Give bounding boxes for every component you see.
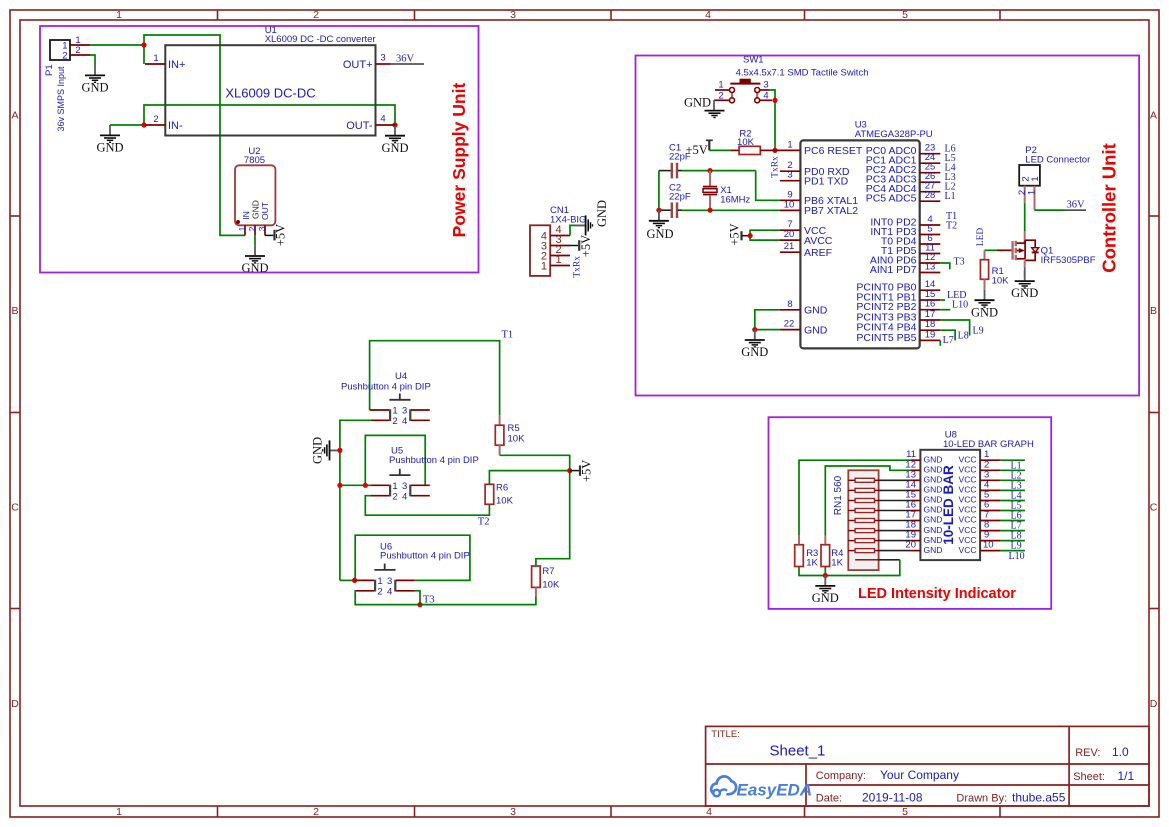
ground GND C2 [646, 210, 673, 241]
pin1 dot marker [236, 220, 240, 224]
wire LED net pin15 [940, 299, 945, 301]
wire U8.11 to R3 [799, 460, 910, 536]
power flag +5V R2 [686, 140, 713, 157]
node junction R2-pin1 [772, 148, 777, 153]
wire L10 net pin16 [940, 309, 950, 311]
svg-text:GND: GND [924, 515, 943, 525]
svg-text:2: 2 [75, 45, 80, 56]
ground GND IN- [96, 125, 123, 155]
svg-text:PCINT5 PB5: PCINT5 PB5 [856, 332, 916, 344]
svg-text:GND: GND [1011, 286, 1038, 300]
LED bar U8 10-LED BAR GRAPH [905, 430, 1034, 561]
wire C1 left down to C2 [658, 171, 660, 211]
right stubs [980, 460, 1000, 550]
svg-text:2: 2 [62, 51, 67, 62]
ground GND U3 [741, 330, 768, 360]
wire CN1.4 to GND [570, 225, 579, 235]
wire +5V junction down to R7 [536, 471, 570, 566]
gate bar [1011, 241, 1013, 260]
node junction C2-GND [656, 208, 661, 213]
svg-text:4: 4 [387, 587, 392, 598]
svg-text:D: D [1150, 698, 1158, 710]
svg-text:EasyEDA: EasyEDA [737, 781, 813, 800]
node junction OUT- [392, 122, 397, 127]
node junction +5V pushbuttons [567, 468, 572, 473]
wire +5V to R2 [709, 149, 730, 151]
node junction R4-GND [823, 573, 828, 578]
wire L9 net pin17 [940, 320, 969, 336]
svg-text:GND: GND [250, 200, 260, 219]
svg-text:B: B [1150, 305, 1157, 317]
svg-text:L10: L10 [952, 300, 968, 311]
svg-text:IN+: IN+ [168, 59, 185, 71]
svg-text:T3: T3 [954, 257, 965, 268]
wire T3 net pin12 [940, 263, 950, 269]
pin 4 OUT- [376, 124, 396, 126]
switch SW1 [714, 55, 868, 103]
svg-text:OUT+: OUT+ [343, 59, 373, 71]
svg-text:4: 4 [763, 90, 768, 101]
ground GND LED section [812, 576, 839, 606]
LED Intensity Indicator box [769, 417, 1052, 609]
svg-text:1: 1 [1027, 190, 1038, 195]
ground GND rail flag (left-pointing) [311, 437, 340, 464]
capacitor C2 22pF [659, 183, 691, 219]
svg-text:Pushbutton 4 pin DIP: Pushbutton 4 pin DIP [389, 455, 479, 466]
node junction IN- [141, 122, 146, 127]
node junction GND8-22 [752, 327, 757, 332]
resistor R3 1K [795, 536, 819, 569]
ground GND Q1 [1011, 268, 1038, 301]
svg-text:Drawn By:: Drawn By: [956, 792, 1007, 804]
svg-text:4: 4 [402, 416, 407, 427]
svg-text:L1: L1 [945, 191, 956, 202]
svg-text:VCC: VCC [959, 505, 977, 515]
pin 1 IN+ [145, 63, 165, 65]
wire gate to R1 [985, 249, 998, 251]
svg-text:+5V: +5V [579, 235, 593, 257]
connector CN1 1X4-BIG [530, 205, 586, 276]
svg-text:GND: GND [241, 261, 268, 275]
svg-text:AIN1 PD7: AIN1 PD7 [870, 264, 917, 276]
svg-text:R5: R5 [508, 423, 520, 434]
resistor R2 10K [730, 129, 775, 155]
wire SW1.2 to GND [713, 100, 715, 110]
svg-text:GND: GND [81, 81, 108, 95]
svg-text:+5V: +5V [580, 460, 594, 482]
svg-text:GND: GND [924, 525, 943, 535]
wire U8.12 to R4 [825, 466, 910, 536]
svg-text:T2: T2 [946, 221, 957, 232]
svg-text:GND: GND [924, 485, 943, 495]
power flag +5V pushbuttons [570, 460, 594, 482]
ground GND P1 [81, 65, 108, 95]
svg-text:VCC: VCC [959, 465, 977, 475]
connector P1 [44, 35, 90, 132]
drain/source/bulk leads [1017, 240, 1035, 260]
svg-text:T1: T1 [502, 330, 514, 341]
svg-text:L8: L8 [958, 331, 969, 342]
wire junction up over to U2 column [144, 35, 245, 235]
svg-text:GND: GND [924, 465, 943, 475]
svg-text:U4: U4 [395, 371, 407, 382]
resistor R6 10K [485, 483, 513, 507]
Controller Unit box [636, 56, 1140, 396]
svg-text:XL6009 DC-DC: XL6009 DC-DC [225, 86, 315, 101]
svg-text:1: 1 [116, 806, 122, 818]
svg-text:GND: GND [924, 505, 943, 515]
svg-text:+5V: +5V [274, 224, 288, 246]
svg-text:GND: GND [311, 437, 325, 464]
wires RN1 outputs to U8 pins 13-20 [879, 480, 911, 560]
svg-text:3: 3 [510, 806, 516, 818]
svg-text:A: A [11, 110, 18, 122]
wire P2.1 to 36V [1035, 209, 1065, 211]
svg-text:AREF: AREF [804, 247, 832, 259]
svg-text:1: 1 [153, 53, 158, 64]
svg-text:PC6 RESET: PC6 RESET [804, 145, 863, 157]
wire rail to U6.1 [340, 579, 355, 581]
svg-text:3: 3 [402, 481, 407, 492]
svg-text:VCC: VCC [959, 525, 977, 535]
svg-text:A: A [1150, 110, 1157, 122]
svg-text:3: 3 [257, 226, 267, 231]
wire U2.2 to GND [254, 235, 256, 245]
svg-text:3: 3 [387, 576, 392, 587]
wire rail to U5.1 [340, 484, 371, 486]
MCU U3 ATMEGA328P-PU [780, 120, 940, 349]
wire P1.1 to junction [90, 44, 144, 46]
ground GND U2 [241, 246, 268, 276]
regulator U2 7805 [235, 146, 275, 235]
svg-text:TxRx: TxRx [771, 156, 781, 178]
svg-text:VCC: VCC [959, 545, 977, 555]
svg-text:3: 3 [380, 53, 385, 64]
svg-text:GND: GND [924, 545, 943, 555]
svg-text:1: 1 [1030, 176, 1041, 181]
power flag +5V U2.3 [265, 224, 288, 246]
svg-text:1/1: 1/1 [1118, 769, 1135, 783]
drain lead down [1024, 260, 1026, 267]
svg-text:VCC: VCC [959, 454, 977, 464]
svg-text:TxRx: TxRx [573, 256, 583, 278]
wires VCC nets L1-L10 [1000, 460, 1025, 550]
pushbutton U4 [341, 371, 431, 427]
svg-text:Pushbutton 4 pin DIP: Pushbutton 4 pin DIP [380, 551, 470, 562]
Power Supply Unit box [40, 26, 479, 273]
wire R4 bottom to GND [824, 567, 826, 576]
node junction rail-U5.1 [337, 483, 342, 488]
resistor R4 1K [821, 536, 844, 569]
svg-text:3: 3 [510, 9, 516, 21]
svg-text:VCC: VCC [959, 475, 977, 485]
svg-text:Sheet_1: Sheet_1 [770, 743, 826, 760]
svg-text:L9: L9 [1011, 541, 1022, 552]
svg-text:GND: GND [971, 305, 998, 319]
node junction X1-C2 [707, 208, 712, 213]
wire RN1 common to GND rail [799, 560, 900, 576]
svg-text:VCC: VCC [959, 515, 977, 525]
svg-text:21: 21 [784, 241, 795, 252]
svg-text:+5V: +5V [728, 223, 742, 245]
svg-text:2: 2 [392, 416, 397, 427]
svg-text:2019-11-08: 2019-11-08 [862, 790, 923, 804]
svg-text:OUT: OUT [260, 202, 270, 220]
svg-text:1: 1 [237, 226, 247, 231]
svg-text:Power Supply Unit: Power Supply Unit [449, 83, 469, 238]
wire U5.2 to R6 bottom [365, 496, 489, 516]
svg-text:10K: 10K [508, 434, 526, 445]
svg-text:GND: GND [924, 535, 943, 545]
pin 3 OUT+ [376, 63, 391, 65]
svg-text:Your Company: Your Company [880, 768, 959, 782]
svg-text:C: C [11, 502, 19, 514]
svg-text:3: 3 [787, 170, 792, 181]
svg-text:4: 4 [706, 806, 712, 818]
wire P2.2 to Q1 source [1024, 203, 1026, 231]
wire R2 junction to U3 pin1 [775, 149, 800, 151]
left pins [780, 171, 801, 329]
pin 2 IN- [145, 124, 165, 126]
svg-text:10: 10 [983, 540, 994, 551]
wire SW1.3 down to R2 junction [770, 90, 775, 150]
svg-text:4.5x4.5x7.1 SMD Tactile Switch: 4.5x4.5x7.1 SMD Tactile Switch [736, 68, 869, 79]
svg-text:thube.a55: thube.a55 [1012, 790, 1066, 804]
svg-text:P1: P1 [44, 64, 55, 76]
net labels L6-L1 on ADC pins [945, 144, 956, 203]
svg-text:PD1 TXD: PD1 TXD [804, 176, 849, 188]
svg-text:SW1: SW1 [743, 55, 764, 66]
svg-text:7805: 7805 [244, 155, 265, 166]
svg-text:1K: 1K [831, 558, 843, 569]
svg-text:2: 2 [247, 226, 257, 231]
svg-text:GND: GND [924, 475, 943, 485]
svg-text:OUT-: OUT- [346, 120, 373, 132]
svg-text:36V: 36V [1067, 200, 1086, 211]
wire U4.2 to GND rail [340, 420, 371, 580]
node junction P1-U1-U2 [141, 42, 146, 47]
wire U5 loop (pin1-pin3 over top) [365, 435, 425, 485]
svg-text:GND: GND [96, 141, 123, 155]
svg-text:1: 1 [392, 481, 397, 492]
svg-text:B: B [11, 305, 18, 317]
svg-text:GND: GND [741, 345, 768, 359]
svg-text:3: 3 [763, 80, 768, 91]
svg-text:2: 2 [313, 806, 319, 818]
svg-text:LED: LED [976, 228, 986, 247]
svg-text:R7: R7 [542, 566, 554, 577]
crystal X1 16MHz [703, 171, 751, 211]
svg-text:IN: IN [241, 211, 251, 220]
wire U6 loop pin1-pin3 [355, 535, 470, 580]
capacitor C1 22pF [659, 143, 691, 179]
svg-text:Sheet:: Sheet: [1073, 771, 1105, 783]
svg-text:1: 1 [555, 254, 561, 266]
wire +5V junction to R6 top [489, 471, 569, 485]
svg-text:2: 2 [392, 492, 397, 503]
svg-text:D: D [11, 698, 19, 710]
node junction U5 loop [363, 483, 368, 488]
svg-text:13: 13 [925, 262, 936, 273]
svg-text:10-LED BAR: 10-LED BAR [941, 465, 956, 545]
svg-text:Date:: Date: [816, 792, 842, 804]
source lead up [1024, 231, 1026, 243]
svg-text:GND: GND [381, 141, 408, 155]
ground GND R1 [971, 290, 998, 320]
wire T1 net U4.1 to R5 [370, 341, 500, 416]
svg-text:VCC: VCC [959, 535, 977, 545]
svg-text:1.0: 1.0 [1112, 745, 1129, 759]
node junction SW1.4 [772, 98, 777, 103]
power flag +5V VCC/AVCC [728, 223, 751, 245]
net labels L1-L10 [1009, 460, 1025, 562]
right pins [920, 154, 941, 341]
wire +5V to VCC and AVCC [750, 230, 780, 240]
svg-text:10K: 10K [496, 496, 514, 507]
svg-text:PB7 XTAL2: PB7 XTAL2 [804, 205, 858, 217]
svg-text:GND: GND [804, 305, 828, 317]
svg-text:Company:: Company: [816, 770, 866, 782]
svg-text:20: 20 [784, 229, 795, 240]
svg-text:ATMEGA328P-PU: ATMEGA328P-PU [855, 129, 933, 140]
svg-text:GND: GND [684, 96, 711, 110]
svg-text:GND: GND [646, 227, 673, 241]
pin 3 OUT [264, 225, 266, 235]
svg-text:PC5 ADC5: PC5 ADC5 [866, 193, 917, 205]
svg-text:2: 2 [377, 587, 382, 598]
svg-text:22pF: 22pF [669, 152, 691, 163]
resistor R5 10K [495, 415, 525, 455]
svg-text:2: 2 [153, 114, 158, 125]
wire P1.2 to GND [90, 55, 95, 65]
svg-text:1: 1 [116, 9, 122, 21]
svg-text:28: 28 [925, 190, 936, 201]
resistor R7 10K [532, 566, 560, 597]
svg-text:4: 4 [402, 492, 407, 503]
svg-text:1K: 1K [806, 558, 818, 569]
svg-text:5: 5 [902, 806, 908, 818]
ground GND CN1 (right-pointing) [575, 200, 609, 235]
svg-text:Pushbutton 4 pin DIP: Pushbutton 4 pin DIP [341, 382, 431, 393]
connector P2 LED Connector [1017, 145, 1090, 210]
svg-text:4: 4 [380, 114, 385, 125]
bulk arrow [1017, 250, 1021, 252]
gate lead [997, 249, 1013, 251]
svg-text:2: 2 [718, 90, 723, 101]
svg-text:4: 4 [705, 9, 711, 21]
svg-text:GND: GND [804, 324, 828, 336]
svg-text:3: 3 [402, 406, 407, 417]
svg-text:REV:: REV: [1075, 747, 1100, 759]
svg-text:LED Connector: LED Connector [1025, 155, 1090, 166]
resistor network RN1 560 [833, 470, 879, 570]
svg-text:Controller Unit: Controller Unit [1099, 143, 1120, 273]
left stubs [910, 460, 920, 550]
svg-text:36v SMPS Input: 36v SMPS Input [56, 66, 66, 132]
svg-text:36V: 36V [396, 54, 415, 65]
pushbutton U5 [371, 446, 479, 503]
wire U6.4 to T3 dot [415, 591, 420, 605]
pushbutton U6 [355, 542, 470, 598]
svg-text:R6: R6 [496, 483, 508, 494]
node junction T3 [417, 602, 422, 607]
svg-text:LED Intensity Indicator: LED Intensity Indicator [858, 586, 1016, 602]
wire C1 to X1 top and pin9 [682, 170, 756, 172]
node junction GND flag [337, 448, 342, 453]
power flag +5V CN1.3 [570, 235, 593, 257]
net flag 36V at OUT+ [391, 54, 425, 65]
svg-text:AVCC: AVCC [804, 235, 833, 247]
svg-text:1: 1 [787, 139, 792, 150]
svg-text:2: 2 [313, 9, 319, 21]
channel bar (3 segments) [1015, 241, 1017, 260]
svg-text:L7: L7 [943, 335, 954, 346]
svg-text:GND: GND [924, 495, 943, 505]
wire R7 bottom to T3 [420, 597, 536, 605]
svg-text:22pF: 22pF [669, 192, 691, 203]
net flag 36V P2 [1065, 200, 1087, 211]
svg-text:1: 1 [377, 576, 382, 587]
svg-text:1: 1 [718, 80, 723, 91]
wire L8 net pin18 [940, 330, 955, 340]
svg-text:XL6009 DC -DC converter: XL6009 DC -DC converter [265, 34, 376, 45]
svg-text:8: 8 [787, 299, 792, 310]
wire IN- to GND [110, 124, 144, 126]
node junction +5V [748, 233, 753, 238]
svg-text:IRF5305PBF: IRF5305PBF [1041, 255, 1096, 266]
svg-text:19: 19 [925, 329, 936, 340]
svg-text:1: 1 [392, 406, 397, 417]
svg-text:TITLE:: TITLE: [711, 729, 740, 740]
wire OUT- loop to IN- [144, 105, 395, 125]
wire L7 net pin19 [939, 340, 941, 345]
svg-text:GND: GND [812, 591, 839, 605]
EasyEDA logo [711, 776, 812, 799]
wire U6.2 to T3 dot [355, 591, 420, 605]
svg-text:22: 22 [784, 319, 795, 330]
svg-text:T2: T2 [478, 517, 490, 528]
svg-text:L9: L9 [973, 326, 984, 337]
transistor Q1 IRF5305PBF [997, 231, 1096, 267]
svg-text:IN-: IN- [168, 120, 183, 132]
wire junction down to IN+ [143, 45, 145, 64]
op-amp U1 XL6009 module [145, 25, 395, 136]
svg-text:5: 5 [902, 9, 908, 21]
resistor R1 10K [980, 250, 1009, 289]
node junction C1-X1 [707, 168, 712, 173]
pin 1 IN [244, 225, 246, 235]
svg-text:GND: GND [595, 200, 609, 227]
svg-text:VCC: VCC [959, 485, 977, 495]
ground GND SW1 [684, 96, 725, 118]
wire R5 bottom to +5V junction [500, 455, 570, 470]
body diode [1032, 248, 1039, 253]
svg-text:10K: 10K [992, 276, 1010, 287]
svg-text:1: 1 [541, 261, 547, 273]
svg-text:GND: GND [924, 454, 943, 464]
svg-text:VCC: VCC [959, 495, 977, 505]
ground GND OUT- [381, 125, 408, 155]
wire C2 to pin10 [682, 209, 780, 211]
node junction rail-U6.1 [352, 578, 357, 583]
svg-text:10: 10 [784, 199, 795, 210]
svg-text:L10: L10 [1009, 551, 1025, 562]
wire GND pins 8/22 [755, 310, 780, 330]
svg-text:16MHz: 16MHz [720, 195, 750, 206]
svg-text:20: 20 [905, 540, 916, 551]
svg-text:C: C [1150, 502, 1158, 514]
svg-text:RN1 560: RN1 560 [833, 475, 844, 515]
